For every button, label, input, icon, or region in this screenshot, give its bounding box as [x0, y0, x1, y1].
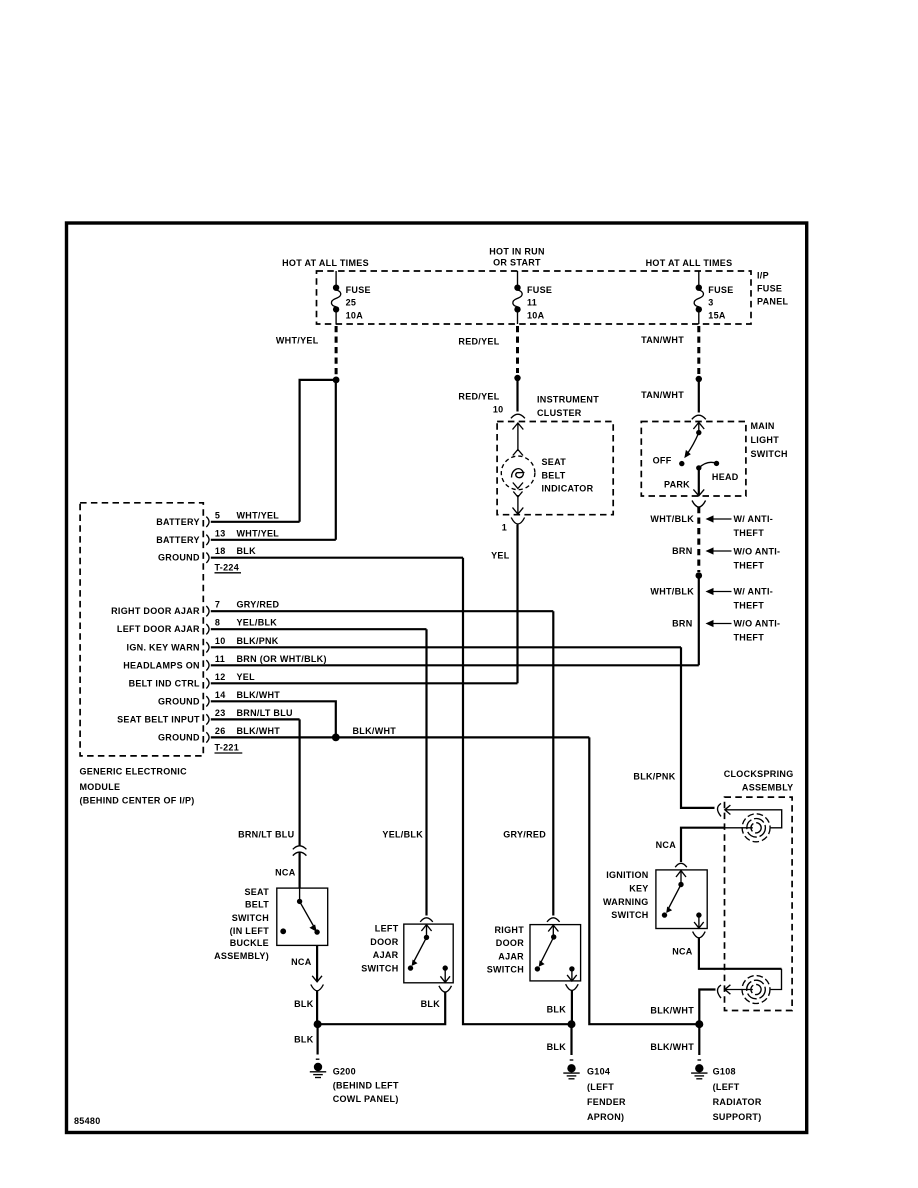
- wire dashed from main light switch (anti-theft variants): [697, 507, 700, 572]
- svg-text:INDICATOR: INDICATOR: [542, 483, 594, 493]
- svg-text:1: 1: [502, 523, 507, 533]
- svg-text:BRN: BRN: [672, 546, 692, 556]
- svg-text:PARK: PARK: [664, 479, 690, 489]
- svg-text:(LEFT: (LEFT: [713, 1082, 740, 1092]
- svg-text:AJAR: AJAR: [498, 951, 524, 961]
- connector above ignition key warning switch: [675, 863, 687, 867]
- svg-text:BLK: BLK: [294, 999, 314, 1009]
- svg-text:BUCKLE: BUCKLE: [230, 938, 269, 948]
- GEM generic electronic module box: [80, 503, 203, 756]
- svg-text:HEAD: HEAD: [712, 472, 739, 482]
- seat belt switch section: [214, 719, 399, 1104]
- svg-text:G104: G104: [587, 1067, 610, 1077]
- svg-text:BLK: BLK: [294, 1035, 314, 1045]
- svg-text:RADIATOR: RADIATOR: [713, 1097, 762, 1107]
- svg-text:7: 7: [215, 600, 220, 610]
- pin 26 GROUND: [158, 726, 589, 743]
- svg-text:THEFT: THEFT: [734, 601, 765, 611]
- svg-text:ASSEMBLY): ASSEMBLY): [214, 951, 269, 961]
- svg-text:APRON): APRON): [587, 1112, 624, 1122]
- svg-text:GROUND: GROUND: [158, 732, 200, 742]
- wire BLK/PNK from GEM pin 10 to clockspring: [681, 647, 715, 808]
- svg-text:BLK/PNK: BLK/PNK: [237, 636, 279, 646]
- svg-text:WARNING: WARNING: [603, 897, 649, 907]
- svg-text:CLOCKSPRING: CLOCKSPRING: [724, 769, 794, 779]
- svg-text:BLK/WHT: BLK/WHT: [650, 1042, 694, 1052]
- svg-text:BLK/WHT: BLK/WHT: [650, 1006, 694, 1016]
- svg-text:W/O ANTI-: W/O ANTI-: [734, 547, 781, 557]
- svg-text:YEL/BLK: YEL/BLK: [382, 829, 423, 839]
- wire WHT/YEL to GEM pin 5: [300, 380, 337, 522]
- seat belt switch contacts and lever: [280, 888, 319, 935]
- svg-text:BELT: BELT: [245, 900, 269, 910]
- svg-text:5: 5: [215, 510, 220, 520]
- pin 10 IGN. KEY WARN: [127, 636, 681, 653]
- pin 23 SEAT BELT INPUT: [117, 708, 299, 725]
- svg-text:SWITCH: SWITCH: [751, 449, 788, 459]
- pin 11 HEADLAMPS ON: [123, 654, 699, 671]
- node junction TAN/WHT: [696, 376, 702, 382]
- wire RED/YEL solid to cluster pin 10: [516, 378, 518, 412]
- svg-text:LEFT DOOR AJAR: LEFT DOOR AJAR: [117, 624, 200, 634]
- main light switch box: [641, 422, 746, 497]
- svg-text:BELT: BELT: [542, 470, 566, 480]
- connector T-221: [215, 743, 243, 754]
- svg-text:LEFT: LEFT: [375, 924, 399, 934]
- node junction RED/YEL: [514, 375, 520, 381]
- wire TAN/WHT solid to switch: [698, 379, 700, 413]
- svg-text:GRY/RED: GRY/RED: [237, 600, 280, 610]
- svg-text:11: 11: [215, 654, 225, 664]
- svg-text:OFF: OFF: [653, 456, 672, 466]
- svg-text:(LEFT: (LEFT: [587, 1082, 614, 1092]
- svg-text:WHT/YEL: WHT/YEL: [276, 336, 319, 346]
- svg-text:BATTERY: BATTERY: [156, 535, 200, 545]
- wire BLK junction to G104: [570, 1024, 572, 1055]
- clockspring assembly box: [725, 797, 793, 1010]
- svg-text:WHT/YEL: WHT/YEL: [237, 528, 280, 538]
- node junction BLK/WHT at pins 14/26: [332, 734, 340, 742]
- fuse panel section: [276, 247, 789, 540]
- svg-text:LIGHT: LIGHT: [751, 435, 780, 445]
- pin 7 RIGHT DOOR AJAR: [111, 600, 553, 617]
- svg-text:BELT IND CTRL: BELT IND CTRL: [129, 678, 200, 688]
- svg-text:RIGHT: RIGHT: [495, 925, 525, 935]
- main light switch contacts and lever: [653, 422, 739, 496]
- svg-text:WHT/YEL: WHT/YEL: [237, 510, 280, 520]
- ignition key warning switch box: [656, 870, 707, 929]
- svg-text:T-224: T-224: [215, 562, 240, 572]
- anti-theft arrow 2: [706, 547, 781, 571]
- svg-text:10: 10: [215, 636, 226, 646]
- svg-text:THEFT: THEFT: [734, 528, 765, 538]
- node junction BLK at G200: [314, 1020, 322, 1028]
- connector at main light switch input: [692, 415, 706, 419]
- ground G200: [310, 1059, 326, 1077]
- ground G104: [563, 1060, 579, 1079]
- instrument cluster box: [497, 422, 613, 515]
- clockspring upper coil: [725, 814, 771, 842]
- svg-text:SWITCH: SWITCH: [361, 963, 398, 973]
- pin 12 BELT IND CTRL: [129, 672, 518, 689]
- border frame: [67, 223, 807, 1133]
- connector at cluster pin 1: [511, 518, 524, 525]
- svg-text:COWL PANEL): COWL PANEL): [333, 1094, 399, 1104]
- wire BLK pin 18 down to G104: [463, 558, 572, 1024]
- svg-text:BRN/LT BLU: BRN/LT BLU: [238, 829, 294, 839]
- node junction BLK/WHT at G108: [695, 1020, 703, 1028]
- svg-text:SWITCH: SWITCH: [232, 913, 269, 923]
- svg-text:18: 18: [215, 546, 226, 556]
- anti-theft arrow 4: [706, 619, 781, 643]
- ground G108: [691, 1060, 707, 1079]
- pin 13 BATTERY: [156, 528, 336, 545]
- svg-text:YEL/BLK: YEL/BLK: [237, 618, 278, 628]
- wire RED/YEL dashed from fuse 11: [516, 326, 519, 373]
- connector above right door switch: [547, 918, 560, 922]
- svg-text:BLK: BLK: [421, 999, 441, 1009]
- svg-text:HOT AT ALL TIMES: HOT AT ALL TIMES: [282, 258, 369, 268]
- svg-text:OR START: OR START: [493, 258, 541, 268]
- connector above left door switch: [420, 918, 433, 922]
- svg-text:DOOR: DOOR: [496, 938, 524, 948]
- svg-text:IGNITION: IGNITION: [606, 870, 648, 880]
- connector below ignition switch: [693, 932, 706, 938]
- svg-text:THEFT: THEFT: [734, 561, 765, 571]
- wire GRY/RED from GEM pin 7: [552, 611, 554, 915]
- svg-text:NCA: NCA: [672, 947, 693, 957]
- svg-text:8: 8: [215, 618, 220, 628]
- svg-text:13: 13: [215, 528, 226, 538]
- svg-text:BRN: BRN: [672, 619, 692, 629]
- svg-text:FUSE: FUSE: [346, 285, 371, 295]
- right door ajar switch box: [530, 925, 581, 981]
- clockspring lower coil: [725, 976, 770, 1004]
- svg-text:3: 3: [708, 298, 713, 308]
- svg-text:BATTERY: BATTERY: [156, 517, 200, 527]
- connector at clockspring upper: [718, 803, 722, 816]
- svg-text:GROUND: GROUND: [158, 553, 200, 563]
- connector below right door switch: [566, 984, 579, 990]
- svg-text:INSTRUMENT: INSTRUMENT: [537, 395, 599, 405]
- door switches section: [318, 611, 581, 1024]
- svg-text:PANEL: PANEL: [757, 297, 789, 307]
- svg-text:(IN LEFT: (IN LEFT: [230, 926, 270, 936]
- wire to seat belt switch: [299, 852, 301, 888]
- svg-text:BLK: BLK: [547, 1005, 567, 1015]
- wire WHT/YEL to GEM pin 13: [335, 380, 337, 540]
- left door switch contacts and lever: [408, 924, 450, 983]
- svg-text:SEAT BELT INPUT: SEAT BELT INPUT: [117, 714, 200, 724]
- svg-text:HOT AT ALL TIMES: HOT AT ALL TIMES: [646, 258, 733, 268]
- wire WHT/YEL dashed from fuse 25: [335, 326, 338, 375]
- wire BLK junction to ground: [317, 1024, 319, 1054]
- wire from seat belt switch down: [316, 945, 318, 981]
- svg-text:10: 10: [493, 405, 504, 415]
- seat belt indicator lamp: [501, 423, 593, 514]
- svg-text:NCA: NCA: [656, 840, 677, 850]
- svg-text:15A: 15A: [708, 311, 726, 321]
- svg-text:GENERIC ELECTRONIC: GENERIC ELECTRONIC: [80, 767, 188, 777]
- svg-text:IGN. KEY WARN: IGN. KEY WARN: [127, 642, 200, 652]
- svg-text:SWITCH: SWITCH: [487, 965, 524, 975]
- svg-text:HOT IN RUN: HOT IN RUN: [489, 247, 545, 257]
- svg-text:AJAR: AJAR: [373, 950, 399, 960]
- fuse 25 10A: [331, 271, 370, 324]
- svg-text:FENDER: FENDER: [587, 1097, 626, 1107]
- svg-text:NCA: NCA: [291, 957, 312, 967]
- svg-text:HEADLAMPS ON: HEADLAMPS ON: [123, 660, 200, 670]
- svg-text:25: 25: [346, 298, 357, 308]
- seat belt switch box: [277, 888, 328, 945]
- GEM section: [80, 503, 700, 1024]
- connector below left door switch: [439, 986, 452, 992]
- node junction below anti-theft arrows: [696, 572, 703, 579]
- node junction BLK at G104: [568, 1020, 576, 1028]
- svg-text:BLK: BLK: [547, 1042, 567, 1052]
- svg-text:G200: G200: [333, 1067, 356, 1077]
- wire TAN/WHT dashed from fuse 3: [697, 326, 700, 374]
- svg-text:BLK/WHT: BLK/WHT: [353, 726, 397, 736]
- svg-text:YEL: YEL: [237, 672, 256, 682]
- connector at clockspring lower: [718, 985, 722, 998]
- svg-text:T-221: T-221: [215, 743, 240, 753]
- anti-theft arrow 1: [706, 514, 774, 538]
- wire solid to GEM pin 11: [698, 576, 700, 666]
- svg-text:NCA: NCA: [275, 868, 296, 878]
- connector below seat belt switch: [311, 985, 324, 991]
- svg-text:BLK/WHT: BLK/WHT: [237, 690, 281, 700]
- main light switch section: [641, 326, 788, 665]
- svg-text:BLK/WHT: BLK/WHT: [237, 726, 281, 736]
- svg-text:GROUND: GROUND: [158, 696, 200, 706]
- svg-text:THEFT: THEFT: [734, 633, 765, 643]
- instrument cluster section: [458, 326, 613, 683]
- svg-text:85480: 85480: [74, 1116, 101, 1126]
- svg-text:FUSE: FUSE: [527, 285, 552, 295]
- connector at cluster pin 10: [511, 414, 525, 418]
- wire from ignition switch to lower coil: [699, 938, 782, 969]
- svg-text:ASSEMBLY: ASSEMBLY: [742, 783, 794, 793]
- svg-text:GRY/RED: GRY/RED: [503, 829, 546, 839]
- grounds section: [547, 1020, 762, 1122]
- svg-text:TAN/WHT: TAN/WHT: [641, 390, 684, 400]
- node junction WHT/YEL: [333, 377, 340, 384]
- pin 8 LEFT DOOR AJAR: [117, 618, 427, 635]
- svg-text:BLK: BLK: [237, 546, 257, 556]
- svg-text:FUSE: FUSE: [708, 285, 733, 295]
- left door ajar switch box: [404, 924, 453, 983]
- svg-text:10A: 10A: [346, 311, 364, 321]
- wire BLK/WHT junction to G108: [698, 1024, 700, 1055]
- svg-text:RED/YEL: RED/YEL: [458, 392, 499, 402]
- svg-text:YEL: YEL: [491, 551, 510, 561]
- wire BLK from left door switch to G200 junction: [318, 992, 446, 1024]
- svg-text:RIGHT DOOR AJAR: RIGHT DOOR AJAR: [111, 606, 200, 616]
- pin 5 BATTERY: [156, 510, 299, 527]
- inline connector on BRN/LT BLU: [293, 846, 307, 850]
- svg-text:WHT/BLK: WHT/BLK: [650, 587, 694, 597]
- svg-text:11: 11: [527, 298, 537, 308]
- svg-text:BRN (OR WHT/BLK): BRN (OR WHT/BLK): [237, 654, 327, 664]
- svg-text:23: 23: [215, 708, 226, 718]
- svg-text:(BEHIND CENTER OF I/P): (BEHIND CENTER OF I/P): [80, 795, 195, 805]
- svg-text:BLK/PNK: BLK/PNK: [633, 772, 675, 782]
- svg-text:KEY: KEY: [629, 883, 648, 893]
- svg-text:SEAT: SEAT: [542, 457, 567, 467]
- wire NCA from upper coil to ignition switch: [681, 828, 725, 862]
- svg-text:W/ ANTI-: W/ ANTI-: [734, 587, 774, 597]
- svg-text:CLUSTER: CLUSTER: [537, 408, 582, 418]
- svg-text:14: 14: [215, 690, 226, 700]
- svg-text:SWITCH: SWITCH: [611, 910, 648, 920]
- wire BRN/LT BLU from GEM pin 23: [299, 719, 301, 846]
- wire BLK to G200 junction: [316, 991, 318, 1024]
- svg-text:MAIN: MAIN: [751, 421, 775, 431]
- wire BLK from right door switch to G104 junction: [571, 990, 573, 1024]
- wire BLK/WHT from lower coil to G108 junction: [699, 990, 715, 1025]
- connector at main light switch output: [692, 501, 706, 508]
- svg-text:26: 26: [215, 726, 226, 736]
- wire BLK/WHT pin 26 down to G108: [589, 737, 699, 1024]
- svg-text:I/P: I/P: [757, 271, 769, 281]
- svg-text:10A: 10A: [527, 311, 545, 321]
- svg-text:W/ ANTI-: W/ ANTI-: [734, 514, 774, 524]
- ignition and clockspring section: [603, 647, 794, 1024]
- wire into upper coil: [726, 810, 782, 828]
- ignition switch contacts and lever: [662, 870, 704, 929]
- pin 14 GROUND: [158, 690, 336, 738]
- svg-text:(BEHIND LEFT: (BEHIND LEFT: [333, 1080, 399, 1090]
- svg-text:G108: G108: [713, 1067, 736, 1077]
- svg-text:BRN/LT BLU: BRN/LT BLU: [237, 708, 293, 718]
- svg-text:W/O ANTI-: W/O ANTI-: [734, 619, 781, 629]
- right door switch contacts and lever: [535, 925, 577, 981]
- svg-text:MODULE: MODULE: [80, 782, 121, 792]
- svg-text:RED/YEL: RED/YEL: [458, 337, 499, 347]
- svg-text:12: 12: [215, 672, 226, 682]
- wire YEL from cluster to GEM pin 12: [516, 525, 518, 684]
- fuse 3 15A: [694, 271, 733, 324]
- fuse 11 10A: [513, 271, 552, 324]
- svg-text:SEAT: SEAT: [244, 887, 269, 897]
- I/P fuse panel box: [317, 271, 752, 324]
- svg-text:WHT/BLK: WHT/BLK: [650, 514, 694, 524]
- anti-theft arrow 3: [706, 587, 774, 611]
- svg-text:SUPPORT): SUPPORT): [713, 1112, 762, 1122]
- wire YEL/BLK from GEM pin 8: [425, 629, 427, 915]
- svg-text:DOOR: DOOR: [370, 937, 398, 947]
- pin 18 GROUND: [158, 546, 463, 563]
- connector T-224: [215, 562, 242, 573]
- svg-text:TAN/WHT: TAN/WHT: [641, 335, 684, 345]
- svg-text:FUSE: FUSE: [757, 284, 782, 294]
